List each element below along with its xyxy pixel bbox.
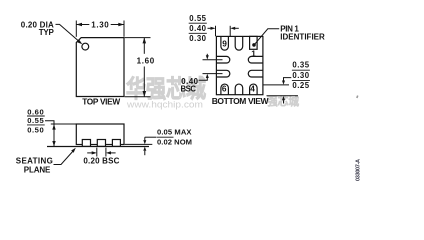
seating plane line (47, 146, 149, 148)
svg-text:1.30: 1.30 (91, 21, 109, 30)
svg-text:1.60: 1.60 (137, 56, 155, 65)
svg-text:0.05 MAX: 0.05 MAX (157, 127, 192, 136)
leader from 0.20 DIA to circle (56, 24, 83, 44)
top view body outline (76, 38, 124, 97)
svg-text:0.35: 0.35 (292, 61, 309, 70)
dimension 1.30 (top view width) (76, 21, 124, 37)
svg-text:TOP VIEW: TOP VIEW (82, 97, 120, 107)
lead foot 2 (97, 140, 105, 147)
svg-text:4: 4 (250, 84, 255, 94)
label SEATING PLANE with leader (16, 148, 76, 175)
svg-text:TYP: TYP (39, 28, 55, 37)
pin 10 pad (top middle) (235, 36, 243, 50)
svg-text:0.40: 0.40 (189, 24, 206, 33)
svg-text:0.25: 0.25 (292, 81, 309, 90)
svg-text:SEATING: SEATING (16, 157, 53, 166)
pin 4 pad (bottom right) (250, 84, 258, 95)
dimension stack 0.60/0.55/0.50 (27, 108, 45, 135)
svg-text:9: 9 (222, 38, 227, 48)
svg-text:0.55: 0.55 (189, 14, 206, 23)
label PIN 1 IDENTIFIER with leader (255, 25, 325, 45)
pin 7 pad (left lower) (216, 70, 229, 77)
pin 1 indicator circle (82, 43, 89, 50)
svg-text:0.30: 0.30 (189, 34, 206, 43)
pin 8 pad (left upper) (216, 56, 229, 63)
svg-text:033007-A: 033007-A (356, 159, 362, 181)
svg-text:BSC: BSC (181, 84, 197, 93)
pin 2 pad (right upper) (248, 56, 263, 63)
top dimension arrows (lead length) (208, 26, 239, 36)
height dimension line (45, 121, 76, 147)
svg-text:0.02 NOM: 0.02 NOM (157, 138, 192, 147)
pin 5 pad (bottom middle) (235, 84, 243, 95)
dimension stack 0.55/0.40/0.30 (top left of bottom view) (189, 14, 207, 43)
lead foot 1 (82, 140, 90, 147)
svg-text:www.hqchip.com: www.hqchip.com (126, 100, 203, 111)
dimension 0.20 BSC (foot width) (83, 148, 119, 166)
svg-text:0.30: 0.30 (292, 71, 309, 80)
bottom view body outline (216, 36, 263, 94)
label 0.20 DIA TYP (21, 20, 55, 37)
right dimension arrows (bottom pad length) (263, 78, 298, 104)
watermark 华强芯城 (126, 75, 206, 111)
svg-text:0.20 BSC: 0.20 BSC (83, 157, 119, 166)
svg-text:PLANE: PLANE (24, 166, 51, 175)
svg-text:0.55: 0.55 (27, 116, 44, 125)
standoff dimension 0.05 MAX / 0.02 NOM (125, 127, 192, 155)
stray speck (356, 95, 358, 98)
pin 6 pad (bottom left) (221, 84, 229, 95)
lead foot 3 (112, 140, 120, 147)
svg-text:6: 6 (222, 84, 227, 94)
svg-text:0.50: 0.50 (27, 126, 44, 135)
svg-text:BOTTOM VIEW: BOTTOM VIEW (212, 96, 270, 106)
dimension 0.40 BSC (left pad pitch) (181, 54, 223, 94)
dimension stack 0.35/0.30/0.25 (right of bottom view) (292, 61, 310, 91)
pin 1 pad (top right, square) (250, 36, 258, 49)
pin 3 pad (right lower) (248, 70, 263, 77)
dimension 1.60 (top view height) (125, 38, 155, 97)
svg-text:1: 1 (251, 49, 256, 59)
pin 9 pad (top left) (221, 36, 229, 50)
side view body (76, 124, 124, 145)
svg-text:0.60: 0.60 (27, 108, 44, 117)
pin 1 identifier dot (252, 43, 256, 47)
svg-text:IDENTIFIER: IDENTIFIER (280, 32, 325, 41)
